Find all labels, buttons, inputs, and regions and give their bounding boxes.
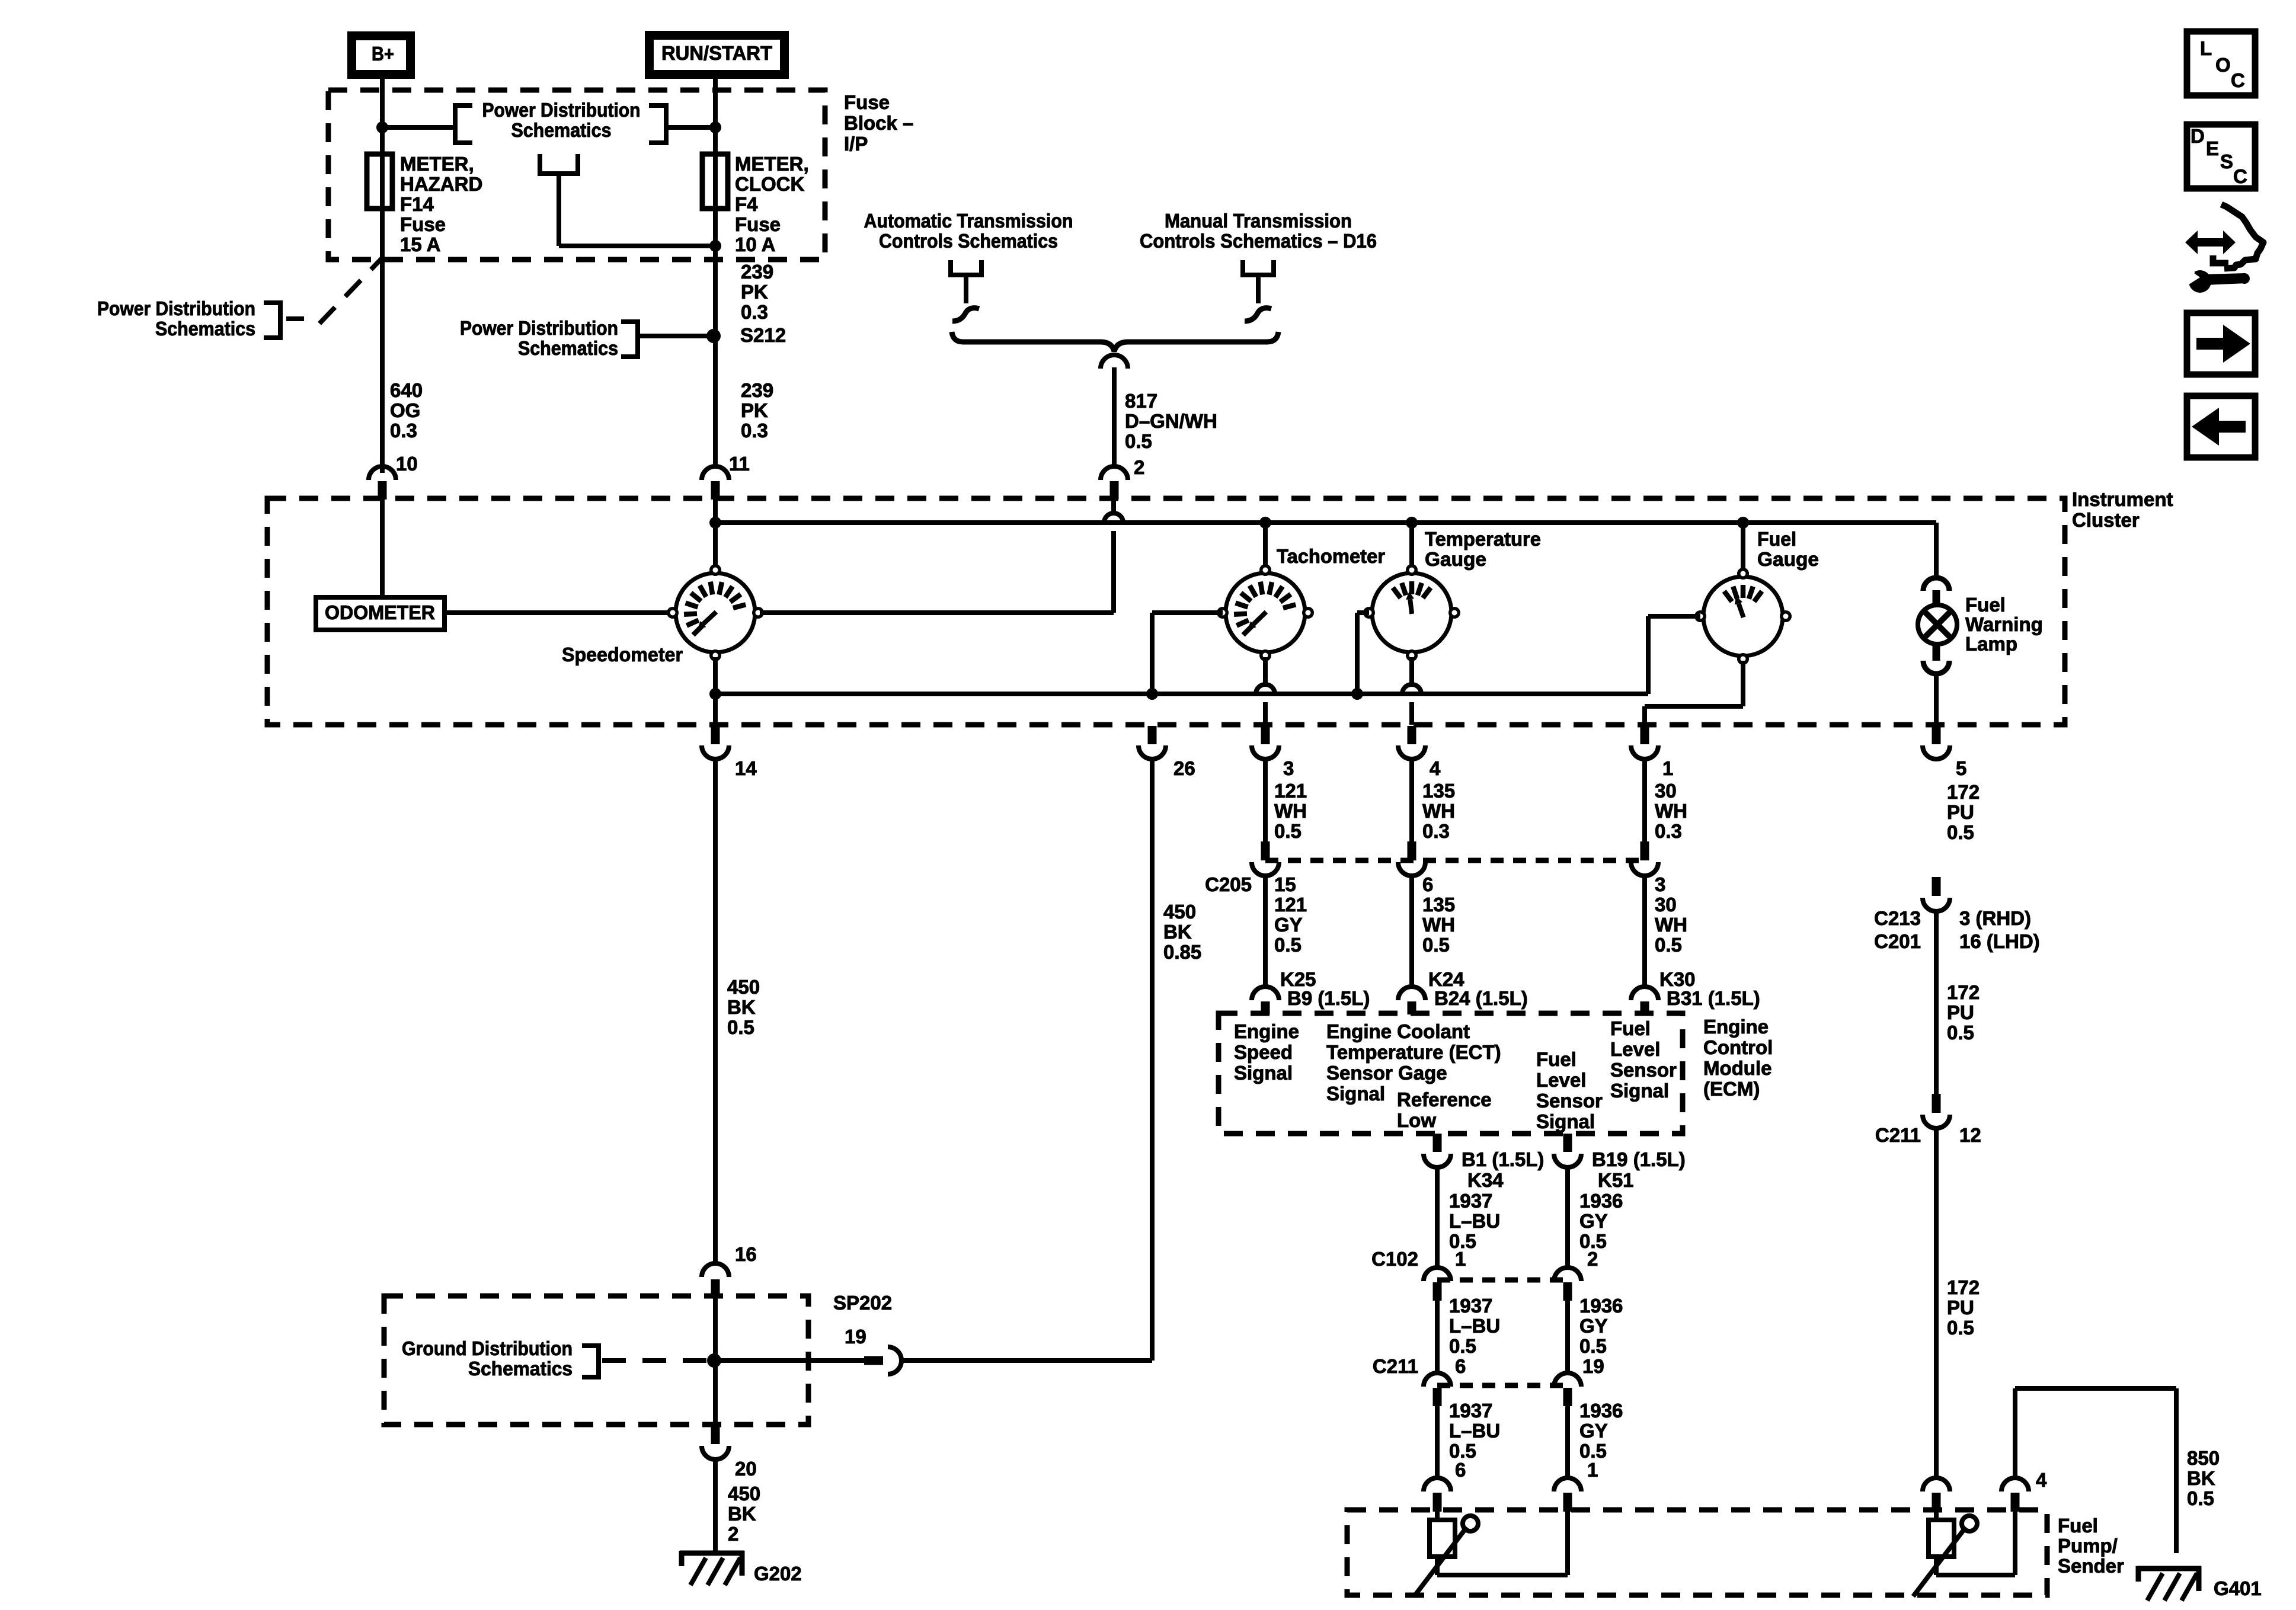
svg-text:Signal: Signal (1536, 1110, 1595, 1132)
svg-text:Cluster: Cluster (2072, 509, 2140, 531)
bracket for left callout (264, 303, 280, 338)
svg-text:Sender: Sender (2058, 1555, 2124, 1577)
node junction on RUN wire (709, 121, 721, 133)
svg-text:C: C (2231, 69, 2245, 91)
svg-text:Fuel: Fuel (2058, 1515, 2098, 1537)
svg-text:172: 172 (1947, 981, 1980, 1003)
node fuel top bus junction (1737, 517, 1749, 529)
svg-text:C201: C201 (1874, 930, 1921, 952)
power feed B+ box (352, 36, 411, 75)
connector B24 at ECM (1398, 987, 1425, 1014)
wire fuel gauge bottom jog to pin 1 (1645, 661, 1743, 725)
fuse block I/P dashed box (328, 90, 825, 260)
svg-text:817: 817 (1125, 390, 1157, 412)
svg-text:Power Distribution: Power Distribution (482, 99, 641, 121)
connector C205 terminal (1398, 841, 1425, 876)
svg-text:Controls Schematics: Controls Schematics (879, 230, 1058, 252)
connector pin 4 at cluster bottom (1398, 726, 1425, 759)
connector C102 dashed line (1437, 1278, 1568, 1283)
dashed leader to B+ wire (286, 257, 383, 324)
svg-text:Reference: Reference (1397, 1089, 1492, 1110)
tachometer gauge (1217, 564, 1314, 661)
svg-text:OG: OG (390, 399, 420, 421)
svg-text:C211: C211 (1373, 1355, 1418, 1377)
svg-text:15: 15 (1274, 873, 1296, 895)
wire lamp to pin 5 (1934, 674, 1939, 725)
svg-text:ODOMETER: ODOMETER (325, 601, 435, 623)
node temp top bus junction (1406, 517, 1418, 529)
bracket for S212 callout (621, 322, 638, 357)
svg-text:GY: GY (1579, 1210, 1608, 1232)
svg-text:1937: 1937 (1449, 1295, 1492, 1317)
label C102 pins (1371, 1248, 1598, 1270)
svg-text:Fuse: Fuse (844, 91, 890, 113)
svg-text:L–BU: L–BU (1449, 1420, 1500, 1442)
label 1937 L-BU 0.5 (seg1) (1449, 1190, 1500, 1252)
svg-text:WH: WH (1655, 914, 1687, 936)
svg-text:Block –: Block – (844, 112, 913, 134)
svg-text:Ground Distribution: Ground Distribution (402, 1337, 573, 1359)
svg-text:GY: GY (1579, 1315, 1608, 1337)
svg-text:0.5: 0.5 (1449, 1335, 1476, 1357)
icon back arrow box (2187, 396, 2255, 457)
connector C205 terminal (1252, 841, 1279, 876)
svg-text:(ECM): (ECM) (1703, 1078, 1760, 1100)
wire K51 segment 1 (1565, 1167, 1570, 1268)
svg-text:1936: 1936 (1579, 1400, 1623, 1422)
svg-text:20: 20 (735, 1458, 757, 1480)
wire 172 PU segment 2 (1934, 911, 1939, 1094)
svg-text:B24 (1.5L): B24 (1.5L) (1434, 987, 1528, 1009)
bracket for ground distribution callout (582, 1346, 599, 1377)
wire tachometer left to ground bus (1152, 613, 1223, 694)
wire K34 segment 3 (1435, 1406, 1440, 1478)
label 1937 L-BU 0.5 (seg2) (1449, 1295, 1500, 1357)
svg-text:Pump/: Pump/ (2058, 1535, 2118, 1557)
svg-text:METER,: METER, (735, 153, 809, 175)
label B1 (1.5L) K34 (1462, 1148, 1544, 1191)
svg-text:0.5: 0.5 (1947, 1022, 1974, 1044)
svg-text:GY: GY (1579, 1420, 1608, 1442)
svg-text:S212: S212 (740, 324, 786, 346)
wire 850 BK ground run (2015, 1388, 2176, 1553)
svg-text:135: 135 (1422, 780, 1455, 802)
svg-text:K34: K34 (1467, 1169, 1504, 1191)
svg-text:Automatic Transmission: Automatic Transmission (864, 210, 1073, 232)
connector at fuel pump (sender feed) (1923, 1478, 1950, 1512)
connector at fuel pump (right) (1554, 1478, 1581, 1512)
wire K34 segment 1 (1435, 1167, 1440, 1268)
svg-text:0.5: 0.5 (1125, 430, 1152, 452)
label 1936 GY 0.5 (seg2) (1579, 1295, 1623, 1357)
ground distribution dashed box SP202 (384, 1296, 808, 1425)
svg-text:0.5: 0.5 (1947, 1317, 1974, 1339)
fuel gauge (1694, 568, 1792, 665)
svg-text:Power Distribution: Power Distribution (460, 317, 618, 339)
node junction on B+ wire (376, 121, 388, 133)
wire temp signal between pins (1409, 759, 1414, 841)
wire pin10 to odometer (380, 500, 385, 597)
fuel level sender (left) (1414, 1516, 1478, 1596)
svg-text:Temperature (ECT): Temperature (ECT) (1326, 1041, 1501, 1063)
svg-text:L–BU: L–BU (1449, 1315, 1500, 1337)
svg-text:16: 16 (735, 1243, 757, 1265)
svg-text:239: 239 (741, 379, 773, 401)
label B19 (1.5L) K51 (1592, 1148, 1686, 1191)
svg-text:B31 (1.5L): B31 (1.5L) (1667, 987, 1760, 1009)
svg-text:4: 4 (1430, 757, 1441, 779)
connector pin 14 at cluster bottom (702, 726, 729, 759)
connector C211 dashed line (1437, 1383, 1568, 1388)
svg-text:26: 26 (1173, 757, 1195, 779)
label C211 12 (1875, 1124, 1981, 1146)
svg-text:1: 1 (1662, 757, 1673, 779)
wire label 640 OG 0.3 (390, 379, 423, 441)
label 1936 GY 0.5 (seg3) (1579, 1400, 1623, 1462)
connector pin 5 at cluster bottom (1923, 726, 1950, 759)
odometer box (316, 597, 445, 630)
wire bus to temperature gauge top (1409, 523, 1414, 566)
connector B9 at ECM (1252, 987, 1279, 1014)
svg-text:10 A: 10 A (735, 233, 775, 255)
svg-text:2: 2 (728, 1523, 738, 1545)
svg-text:1936: 1936 (1579, 1190, 1623, 1212)
svg-text:16 (LHD): 16 (LHD) (1959, 930, 2040, 952)
svg-text:3 (RHD): 3 (RHD) (1959, 907, 2031, 929)
svg-text:C102: C102 (1371, 1248, 1418, 1270)
svg-text:C213: C213 (1874, 907, 1921, 929)
label fuel pump pins 6 and 1 (1455, 1459, 1598, 1481)
label Power Distribution Schematics (top) (482, 99, 641, 141)
svg-text:B19 (1.5L): B19 (1.5L) (1592, 1148, 1686, 1170)
fuse F4 METER CLOCK 10A (702, 154, 728, 209)
svg-text:239: 239 (741, 261, 773, 283)
wire through SP202 splice (713, 1298, 718, 1425)
wire K34 segment 2 (1435, 1301, 1440, 1374)
svg-text:Schematics: Schematics (155, 318, 255, 340)
svg-text:0.5: 0.5 (1947, 821, 1974, 843)
svg-text:Gauge: Gauge (1425, 548, 1486, 570)
engine control module dashed box (1219, 1013, 1683, 1134)
wire tachometer bottom with hop (1256, 657, 1275, 725)
connector pin 2 at cluster top (1101, 466, 1128, 500)
svg-text:172: 172 (1947, 781, 1980, 803)
svg-text:PU: PU (1947, 1001, 1974, 1023)
svg-text:Level: Level (1610, 1038, 1660, 1060)
label wire 450 BK 0.85 (1163, 901, 1201, 963)
svg-text:BK: BK (1163, 921, 1192, 943)
wire break hook (automatic) (952, 308, 979, 321)
connector at fuel pump (left) (1424, 1478, 1451, 1512)
label Power Distribution Schematics (left callout) (97, 297, 255, 340)
label Ground Distribution Schematics (402, 1337, 573, 1379)
svg-text:CLOCK: CLOCK (735, 173, 804, 195)
svg-text:19: 19 (845, 1326, 866, 1347)
svg-text:0.5: 0.5 (1422, 934, 1450, 956)
wire top bus inside cluster (715, 520, 1936, 525)
svg-text:PK: PK (741, 399, 768, 421)
svg-text:Fuse: Fuse (735, 213, 781, 235)
instrument cluster dashed box (267, 498, 2065, 725)
wires fuel sender left loop (1437, 1512, 1568, 1575)
svg-text:121: 121 (1274, 780, 1307, 802)
connector pin 3 at cluster bottom (1252, 726, 1279, 759)
label Fuel Pump/Sender (2058, 1515, 2124, 1577)
connector pin 1 at cluster bottom (1631, 726, 1658, 759)
svg-text:PU: PU (1947, 801, 1974, 823)
label 172 PU 0.5 (lower) (1947, 1276, 1980, 1339)
connector C213/C201 in 172 PU wire (1923, 877, 1950, 911)
svg-text:30: 30 (1655, 894, 1677, 916)
svg-text:L–BU: L–BU (1449, 1210, 1500, 1232)
icon LOC box (2187, 31, 2255, 95)
svg-text:WH: WH (1274, 800, 1307, 822)
svg-text:E: E (2206, 137, 2219, 159)
wire fuel signal between pins (1642, 759, 1647, 841)
svg-text:L: L (2200, 37, 2212, 59)
wire temperature bottom with hop (1402, 657, 1421, 725)
svg-text:0.3: 0.3 (1655, 820, 1682, 842)
connector 20 at SP202 box bottom (702, 1426, 729, 1459)
wire temp gauge left to ground bus (1357, 613, 1369, 694)
label wire 450 BK 2 (728, 1483, 760, 1545)
splice S212 (706, 329, 721, 343)
svg-text:121: 121 (1274, 894, 1307, 916)
svg-text:D: D (2191, 125, 2205, 147)
icon forward arrow box (2187, 313, 2255, 375)
label Manual Transmission Controls Schematics - D16 (1140, 210, 1377, 252)
svg-text:Fuel: Fuel (1757, 528, 1796, 550)
connector C211 terminal (1424, 1373, 1451, 1406)
svg-text:B+: B+ (372, 43, 394, 65)
svg-text:2: 2 (1134, 456, 1144, 478)
connector 16 at SP202 box top (702, 1263, 729, 1298)
svg-text:Engine: Engine (1234, 1020, 1299, 1042)
label Engine Coolant Temperature (ECT) Sensor Gage Signal (1326, 1020, 1501, 1105)
svg-text:450: 450 (728, 1483, 760, 1505)
svg-text:0.5: 0.5 (1274, 820, 1302, 842)
svg-text:12: 12 (1959, 1124, 1981, 1146)
wire pin14 down to connector 16 (713, 759, 718, 1263)
connector C211 terminal (1554, 1373, 1581, 1406)
svg-text:C205: C205 (1205, 873, 1252, 895)
svg-text:6: 6 (1455, 1355, 1466, 1377)
node temp ground junction (1351, 688, 1363, 700)
bracket right for Power Distribution Schematics (top) (649, 105, 666, 143)
connector C102 terminal (1554, 1267, 1581, 1301)
svg-text:Level: Level (1536, 1069, 1586, 1091)
svg-text:HAZARD: HAZARD (400, 173, 482, 195)
node top bus left junction (709, 517, 721, 529)
node tach top bus junction (1259, 517, 1271, 529)
connector C211 pin 12 (1923, 1094, 1950, 1128)
svg-text:5: 5 (1956, 757, 1966, 779)
svg-text:6: 6 (1422, 873, 1433, 895)
svg-text:172: 172 (1947, 1276, 1980, 1298)
wire pin11 down to speedometer (713, 500, 718, 566)
svg-text:3: 3 (1283, 757, 1294, 779)
label wire 450 BK 0.5 (727, 976, 760, 1038)
svg-text:Sensor: Sensor (1536, 1090, 1603, 1112)
svg-text:C211: C211 (1875, 1124, 1921, 1146)
svg-text:METER,: METER, (400, 153, 474, 175)
label 239 PK 0.3 lower (741, 379, 773, 441)
svg-text:850: 850 (2187, 1447, 2220, 1469)
svg-text:Manual Transmission: Manual Transmission (1165, 210, 1352, 232)
svg-text:Signal: Signal (1234, 1062, 1293, 1084)
svg-text:0.5: 0.5 (727, 1016, 754, 1038)
svg-text:SP202: SP202 (833, 1292, 892, 1314)
wire bus to tachometer top (1263, 523, 1268, 566)
svg-text:0.5: 0.5 (1655, 934, 1682, 956)
label Engine Control Module (ECM) (1703, 1016, 1773, 1100)
wire speedometer bottom to lower bus (713, 657, 718, 725)
svg-text:Gauge: Gauge (1757, 548, 1819, 570)
svg-text:135: 135 (1422, 894, 1455, 916)
curly brace joining transmission callouts (952, 332, 1278, 351)
svg-text:0.3: 0.3 (741, 420, 768, 441)
U-bracket under Power Distribution Schematics (540, 154, 578, 174)
label Instrument Cluster (2072, 488, 2173, 531)
svg-text:C: C (2233, 165, 2247, 187)
svg-text:0.3: 0.3 (741, 301, 768, 323)
connector B31 at ECM (1631, 987, 1658, 1014)
svg-text:F14: F14 (400, 193, 434, 215)
label Temperature Gauge (1425, 528, 1541, 570)
wire 817 D-GN/WH vertical (1112, 367, 1117, 467)
svg-text:Tachometer: Tachometer (1277, 545, 1385, 567)
node lower bus left junction (709, 688, 721, 700)
label 817 D-GN/WH 0.5 (1125, 390, 1217, 452)
label Engine Speed Signal (1234, 1020, 1299, 1084)
svg-text:Fuel: Fuel (1610, 1017, 1651, 1039)
svg-text:1936: 1936 (1579, 1295, 1623, 1317)
label wire 121 WH 0.5 (tach signal) (1274, 780, 1307, 842)
wire to power distribution bracket left (382, 125, 455, 130)
U-bracket under automatic callout (951, 260, 981, 275)
svg-text:1: 1 (1455, 1248, 1466, 1270)
svg-text:19: 19 (1582, 1355, 1604, 1377)
svg-text:G401: G401 (2214, 1577, 2262, 1599)
svg-text:450: 450 (1163, 901, 1196, 923)
svg-text:PU: PU (1947, 1297, 1974, 1318)
connector C205 terminal (1631, 841, 1658, 876)
svg-text:Fuel: Fuel (1965, 594, 2006, 616)
connector C205 dashed line (1265, 858, 1645, 863)
svg-text:1937: 1937 (1449, 1190, 1492, 1212)
label Fuel Warning Lamp (1965, 594, 2043, 655)
svg-text:0.85: 0.85 (1163, 941, 1201, 963)
label 6 135 WH 0.5 K24 (1422, 873, 1464, 990)
fuel pump/sender dashed box (1347, 1510, 2047, 1595)
svg-text:15 A: 15 A (400, 233, 440, 255)
svg-text:Engine: Engine (1703, 1016, 1769, 1038)
svg-text:6: 6 (1455, 1459, 1466, 1481)
svg-text:10: 10 (396, 453, 418, 475)
wire bracket to splice S212 (638, 334, 714, 338)
svg-text:1937: 1937 (1449, 1400, 1492, 1422)
wire from automatic bracket down (964, 275, 968, 303)
svg-text:3: 3 (1655, 873, 1665, 895)
svg-text:0.5: 0.5 (1274, 934, 1302, 956)
connector C102 terminal (1424, 1267, 1451, 1301)
wire K51 segment 3 (1565, 1406, 1570, 1478)
svg-text:F4: F4 (735, 193, 758, 215)
svg-text:0.3: 0.3 (1422, 820, 1450, 842)
svg-text:Fuel: Fuel (1536, 1048, 1576, 1070)
connector pin 11 at cluster top (702, 466, 729, 500)
temperature gauge (1363, 564, 1460, 661)
fuse F14 METER HAZARD 15A (367, 154, 392, 209)
svg-text:Instrument: Instrument (2072, 488, 2173, 510)
svg-text:Engine Coolant: Engine Coolant (1326, 1020, 1470, 1042)
svg-text:11: 11 (729, 453, 750, 475)
label 1937 L-BU 0.5 (seg3) (1449, 1400, 1500, 1462)
node junction at 10A fuse feed (709, 240, 721, 252)
svg-text:450: 450 (727, 976, 760, 998)
wire odometer to speedometer left (445, 610, 676, 615)
svg-text:Module: Module (1703, 1057, 1771, 1079)
svg-text:Schematics: Schematics (511, 119, 612, 141)
fuse block label (844, 91, 913, 155)
label wire 850 BK 0.5 (2187, 1447, 2220, 1509)
label Power Distribution Schematics (S212 callout) (460, 317, 618, 359)
svg-text:14: 14 (735, 757, 757, 779)
wire 172 PU segment 3 (1934, 1128, 1939, 1478)
connector pin 26 at cluster bottom (1139, 726, 1166, 759)
wire speedometer right to 817 wire (760, 610, 1114, 615)
svg-text:2: 2 (1587, 1248, 1598, 1270)
connector pin 10 at cluster top (369, 466, 396, 500)
label fuse F4 (735, 153, 809, 255)
wires fuel sender right loop (1936, 1512, 2015, 1575)
label Automatic Transmission Controls Schematics (864, 210, 1073, 252)
svg-text:Sensor Gage: Sensor Gage (1326, 1062, 1447, 1084)
wire RUN/START feed vertical (713, 74, 718, 466)
wire fuel gauge left to end of ground bus (1648, 616, 1700, 694)
wire 817 below pin2 with hop over bus (1104, 500, 1123, 613)
svg-text:B9 (1.5L): B9 (1.5L) (1287, 987, 1370, 1009)
svg-text:Signal: Signal (1326, 1083, 1385, 1105)
svg-text:0.5: 0.5 (1579, 1335, 1607, 1357)
label C211 pins (1373, 1355, 1604, 1377)
fuel pump sender (right) (1913, 1516, 1977, 1596)
svg-text:Schematics: Schematics (518, 337, 618, 359)
svg-text:Power Distribution: Power Distribution (97, 297, 255, 319)
svg-text:GY: GY (1274, 914, 1303, 936)
label C213 C201 (1874, 907, 1921, 952)
icon DESC box (2187, 124, 2255, 188)
svg-text:Temperature: Temperature (1425, 528, 1541, 550)
label wire 172 PU 0.5 (lamp) (1947, 781, 1980, 843)
label 172 PU 0.5 (mid) (1947, 981, 1980, 1044)
label wire 135 WH 0.3 (temp signal) (1422, 780, 1455, 842)
svg-text:Low: Low (1397, 1109, 1436, 1131)
wire lower bus inside cluster (715, 692, 1648, 696)
svg-text:RUN/START: RUN/START (661, 42, 772, 64)
svg-text:PK: PK (741, 281, 768, 303)
svg-text:Controls Schematics – D16: Controls Schematics – D16 (1140, 230, 1377, 252)
label S212 wire 239 PK 0.3 upper (741, 261, 773, 323)
ground G401 (2137, 1566, 2201, 1601)
svg-text:B1 (1.5L): B1 (1.5L) (1462, 1148, 1544, 1170)
node tach ground junction (1146, 688, 1158, 700)
label Fuel Level Sensor Signal (left) (1536, 1048, 1603, 1132)
U-bracket under manual callout (1243, 260, 1274, 275)
connector B19 at ECM bottom (1554, 1134, 1581, 1167)
svg-text:640: 640 (390, 379, 423, 401)
label 3 30 WH 0.5 K30 (1655, 873, 1696, 990)
